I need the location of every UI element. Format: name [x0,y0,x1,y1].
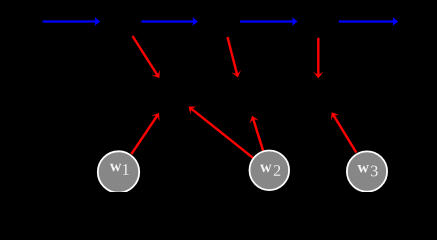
red arrow r1 (top node 2 down to middle node 1) [133,36,161,78]
word node w3 (circle) [347,151,387,191]
word node w1 (circle) [98,151,139,192]
blue arrow b3 (context chain link 3) [240,17,298,26]
red arrow u4 (w3 up to middle node 3) [331,112,357,152]
blue arrow b2 (context chain link 2) [141,17,198,26]
red arrow u3 (w2 up to middle node 2) [249,116,263,151]
label w3 [357,165,377,176]
red arrow u2 (w2 up-left to middle node 1) [189,107,254,158]
label w2 [260,165,280,176]
red arrow u1 (w1 up to middle node 1) [131,113,159,154]
red arrow r3 (top node 4 down to middle node 3) [313,38,323,79]
blue arrow b4 (context chain link 4) [339,17,398,26]
word node w2 (circle) [249,151,289,191]
diagram: word prediction chain [0,0,437,192]
label w1 [110,164,129,175]
red arrow r2 (top node 3 down to middle node 2) [228,37,242,78]
blue arrow b1 (context chain link 1) [43,17,101,26]
